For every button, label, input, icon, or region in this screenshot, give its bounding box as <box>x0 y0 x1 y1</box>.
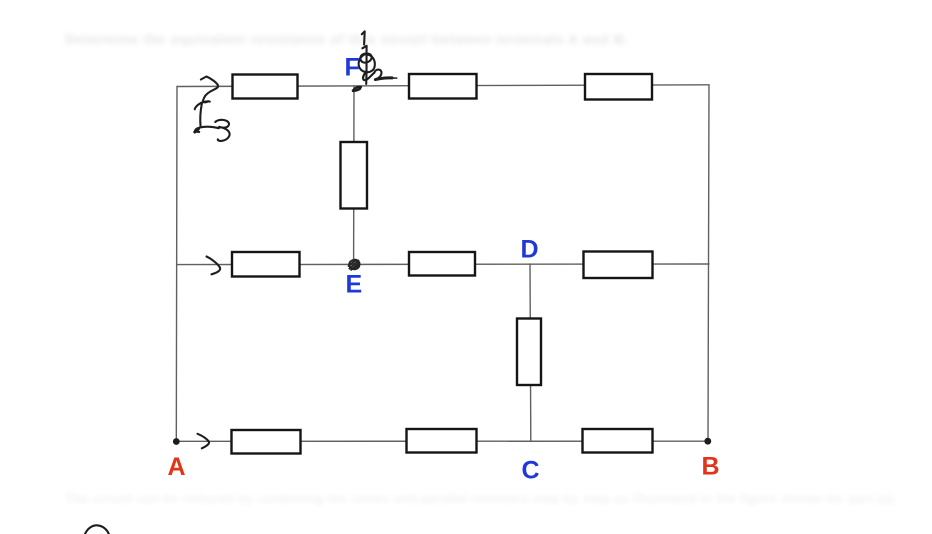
svg-text:A: A <box>168 453 186 481</box>
svg-text:B: B <box>702 453 720 481</box>
svg-text:E: E <box>346 271 363 299</box>
svg-text:F: F <box>345 54 360 82</box>
svg-text:D: D <box>521 236 539 264</box>
svg-text:C: C <box>522 457 540 485</box>
